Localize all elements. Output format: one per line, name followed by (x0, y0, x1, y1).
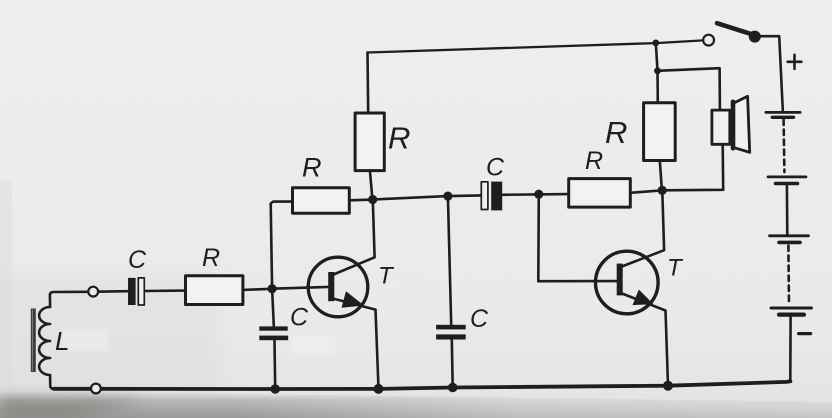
battery plate long 1 (766, 111, 800, 114)
transistor T2 circle (596, 251, 659, 314)
capacitor C3 hollow plate (481, 182, 488, 210)
wire down to base T2 (538, 194, 617, 281)
transistor T2 emitter arrow (633, 290, 654, 306)
svg-text:L: L (55, 326, 69, 356)
bottom light dim strip (0, 398, 832, 418)
svg-text:C: C (290, 304, 309, 332)
junction dot base T2 (534, 190, 543, 199)
transistor T1 circle (308, 257, 368, 317)
plus sign (788, 55, 802, 69)
battery plate short 3 (779, 241, 800, 245)
bottom ground wire (54, 381, 791, 389)
svg-text:T: T (378, 263, 395, 290)
wire switch to battery (761, 36, 783, 112)
mid rail wire left (373, 195, 482, 199)
wire between top dots (656, 43, 658, 71)
svg-text:R: R (388, 121, 410, 156)
capacitor C1 hollow plate (138, 278, 144, 305)
wire C4 to ground (450, 340, 454, 388)
node base T1 (268, 284, 277, 293)
transistor T1 emitter arrow (342, 291, 365, 307)
switch pivot blob (749, 31, 761, 43)
speaker horn (733, 96, 750, 152)
capacitor C2 plate bottom (259, 336, 288, 341)
wire base node down to C2 (272, 289, 274, 327)
resistor R4 (644, 103, 676, 161)
top supply wire (368, 40, 704, 52)
soft lower-left paper shade (0, 270, 220, 410)
wire C4 vertical (448, 196, 451, 325)
resistor R1 (186, 276, 243, 305)
ground dot C4 (448, 383, 458, 393)
input terminal circle (88, 287, 98, 297)
wire dot to R4 top (656, 71, 659, 103)
svg-text:C: C (486, 154, 505, 182)
battery plate short 1 (772, 116, 793, 119)
battery plate long 2 (768, 176, 806, 179)
transistor T2 emitter (622, 294, 668, 386)
minus sign (799, 332, 811, 335)
speaker bottom wire (662, 144, 723, 190)
resistor R3 top vertical (355, 113, 384, 171)
white-out patch near C2 (292, 336, 336, 354)
resistor R5 (569, 179, 631, 208)
capacitor C3 solid plate (491, 182, 502, 211)
battery solid link (786, 186, 789, 236)
input wire to capacitor C1 (88, 290, 128, 293)
coil L (antenna coil) (39, 292, 88, 389)
svg-text:R: R (605, 115, 627, 150)
wire R1 to base node (243, 289, 272, 290)
wire feedback left vertical (271, 202, 293, 289)
capacitor C4 plate top (436, 325, 466, 330)
battery dashed link 2 (787, 246, 790, 306)
capacitor C1 solid plate (128, 278, 136, 305)
ferrite core bar (31, 309, 36, 373)
battery plate long 3 (770, 234, 809, 237)
wire R2 to collector node (349, 198, 372, 201)
capacitor C4 plate bottom (436, 334, 466, 339)
transistor T2 collector (622, 191, 664, 267)
base wire T1 (272, 287, 328, 289)
resistor R2 feedback (293, 188, 350, 214)
wire R3 to collector node (370, 171, 373, 200)
ground dot emitter T1 (374, 384, 384, 394)
switch lever (717, 23, 754, 35)
transistor T1 collector (334, 200, 375, 275)
switch contact circle (703, 35, 714, 46)
svg-text:C: C (128, 246, 147, 274)
node collector T2 dot (658, 186, 667, 195)
collector node dot T1 (368, 195, 377, 204)
junction dot top rail (652, 40, 659, 47)
svg-text:R: R (202, 244, 220, 272)
wire C1 to R1 (145, 289, 186, 292)
svg-text:R: R (302, 153, 322, 183)
svg-text:T: T (667, 255, 684, 282)
speaker horn left bar (731, 102, 736, 148)
bottom terminal circle (91, 384, 101, 394)
left edge shading (0, 180, 12, 418)
transistor T2 base bar (617, 264, 623, 296)
junction dot C4 (443, 192, 452, 201)
svg-text:R: R (585, 147, 603, 175)
transistor T1 base bar (328, 272, 334, 301)
battery plate short 4 (779, 313, 804, 317)
battery plate long 4 (771, 307, 812, 310)
wire C2 to ground (273, 340, 276, 389)
capacitor C2 plate top (259, 326, 287, 330)
mid rail wire right (503, 193, 569, 196)
battery plate short 2 (776, 182, 798, 186)
white-out patch near L (62, 330, 108, 351)
wire R5 to node (630, 191, 658, 193)
wire R4 bottom to node (660, 161, 662, 191)
wire top rail left corner down to R3 (366, 53, 369, 114)
bottom-left darker corner (0, 396, 150, 418)
speaker driver (712, 110, 730, 144)
ground dot C2 (270, 384, 280, 394)
junction dot speaker rail (654, 67, 661, 74)
bottom dark band (photo edge) (0, 391, 832, 418)
battery bottom lead (789, 317, 792, 381)
ground dot emitter T2 (663, 381, 673, 391)
transistor T1 emitter (334, 299, 379, 389)
svg-text:C: C (470, 305, 489, 333)
speaker top feed wire (658, 68, 720, 110)
battery dashed link 1 (782, 120, 785, 173)
